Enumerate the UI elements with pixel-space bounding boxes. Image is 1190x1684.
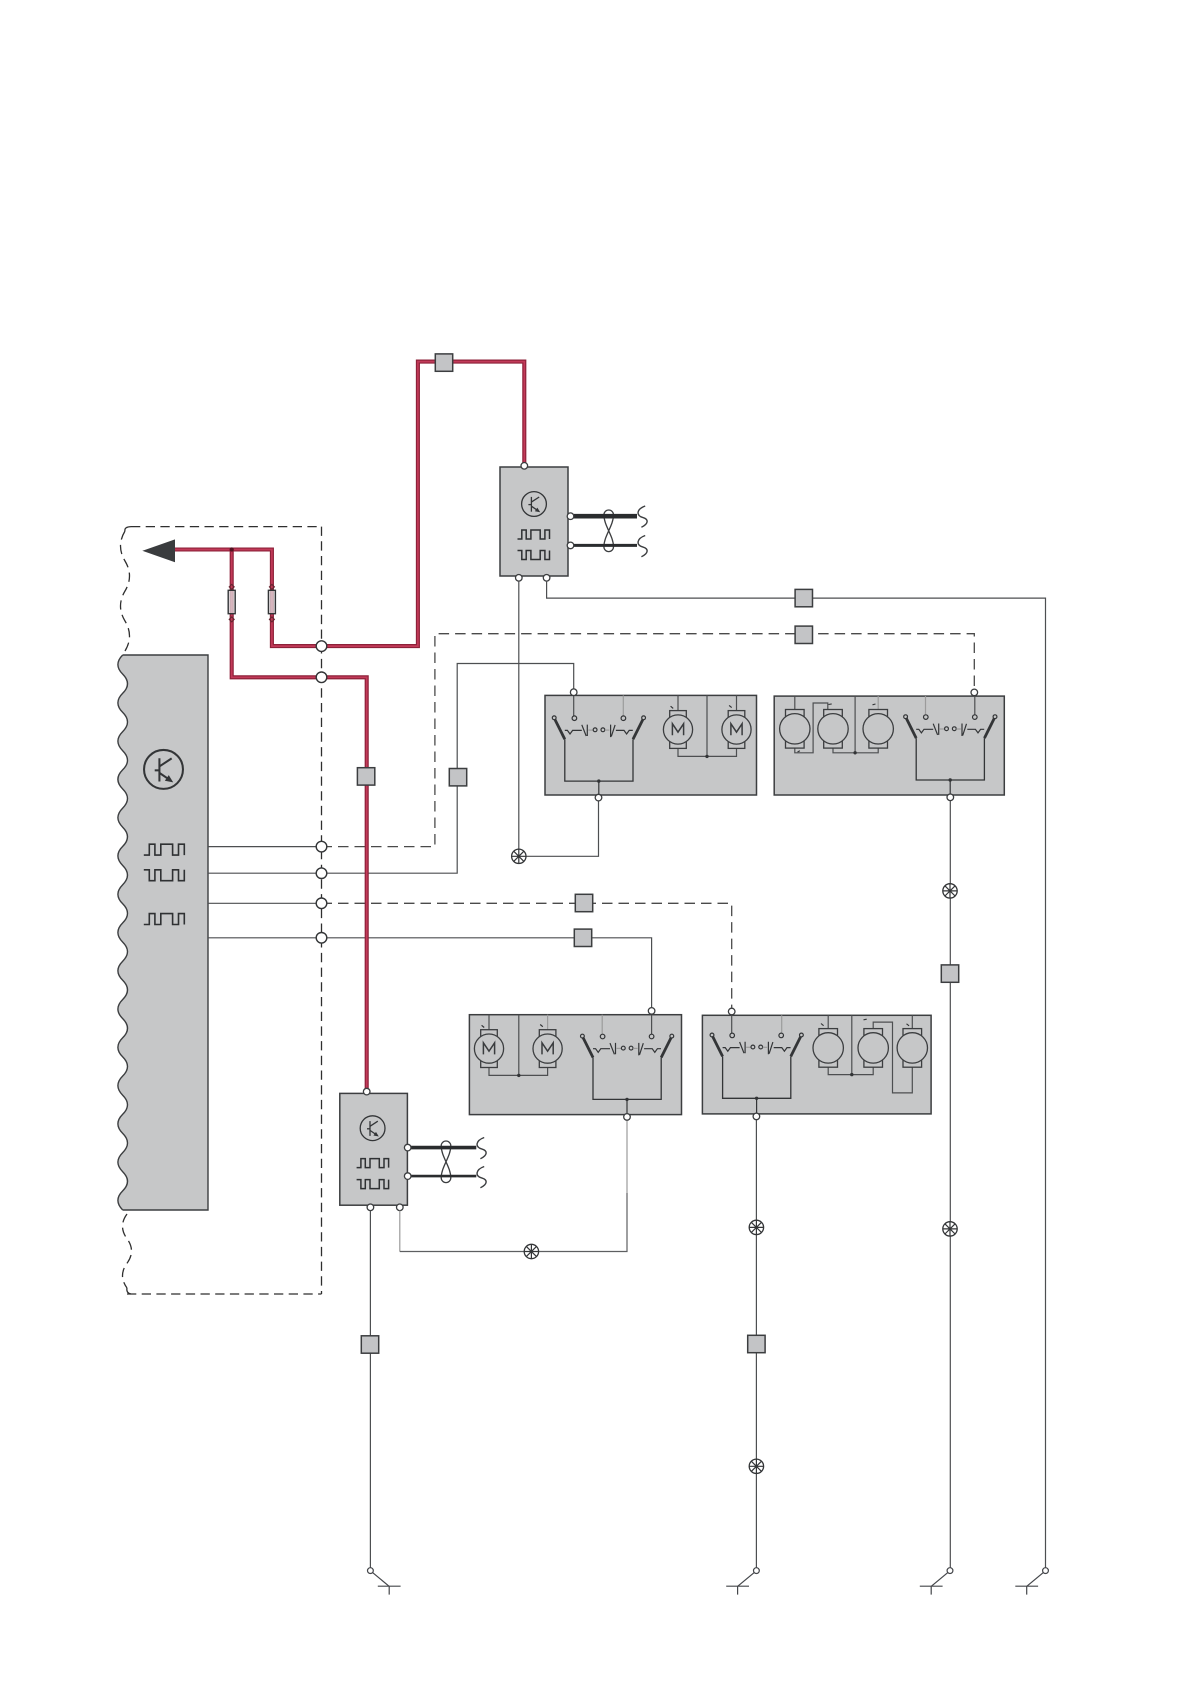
wire ECU pin3 to node N5 — [208, 902, 322, 904]
wire block D bottom pin down to ground G2 — [755, 1120, 757, 1568]
K1 bottom pin right — [543, 575, 550, 582]
door module block D body — [702, 1015, 931, 1114]
electronic module K2 body — [340, 1093, 408, 1205]
block D motor1/motor2 common rail — [828, 1015, 873, 1074]
block D motor1 feed stub — [827, 1015, 829, 1029]
node N6 signal 4 at boundary — [316, 933, 327, 944]
block C motor1 feed stub — [488, 1015, 490, 1030]
ECU wavy torn left edge — [118, 655, 128, 1210]
block C window switch — [581, 1034, 674, 1115]
K2 electronics symbol — [360, 1116, 385, 1141]
wire ECU pin1 to node N3 — [208, 846, 322, 848]
block A motor common rail — [678, 695, 737, 756]
lamp L6 on block D ground wire lower — [749, 1459, 763, 1473]
K1 right pin upper — [567, 513, 574, 520]
red wire junction — [230, 547, 234, 551]
fuse 2 — [268, 584, 275, 622]
block A motor M1 — [663, 711, 692, 749]
block A motor tick marks — [671, 705, 732, 708]
block B motor3 feed stub — [877, 696, 879, 710]
dashed harness boundary wavy left edge lower — [123, 1214, 132, 1288]
K2 twisted pair lower conductor — [411, 1175, 476, 1178]
block A bottom pin — [595, 794, 602, 801]
block B motor1-to-motor2 link — [795, 703, 828, 753]
block B motor 1 — [780, 710, 810, 749]
K1 twisted pair lower conductor — [574, 544, 637, 547]
block A motor M2 — [722, 711, 751, 749]
K1 twisted pair upper conductor — [574, 514, 637, 519]
power source arrow — [144, 540, 175, 561]
block D switch unused stub — [781, 1015, 783, 1032]
block C top pin — [648, 1008, 655, 1015]
connector C8 on block B ground wire — [941, 965, 958, 982]
lamp L1 on K1-to-A wire — [512, 849, 526, 863]
connector C4 on block A feed wire — [449, 769, 466, 786]
K1 twisted pair crossing — [604, 510, 614, 552]
block B motor1 feed stub — [794, 696, 796, 710]
block A window switch — [552, 716, 645, 797]
block D switch feed stub — [731, 1015, 733, 1033]
lamp L3 on block B ground wire — [943, 884, 957, 898]
block B motor 3 — [863, 710, 893, 749]
dashed harness boundary box bottom edge — [127, 1293, 322, 1295]
block C switch unused stub — [601, 1015, 603, 1034]
K2 top pin — [363, 1088, 370, 1095]
dashed harness boundary wavy left edge upper — [121, 531, 130, 651]
block B window switch — [904, 715, 997, 796]
block B switch feed stub — [974, 696, 976, 715]
ground G3 — [920, 1568, 953, 1595]
K1 pulse symbol 2 — [518, 551, 550, 560]
K2 twisted pair break squiggle lower — [477, 1167, 486, 1188]
K2 pulse symbol 2 — [357, 1180, 389, 1189]
dashed harness boundary box top edge — [131, 526, 322, 528]
block D top pin — [728, 1008, 735, 1015]
block C motor M2 — [533, 1030, 562, 1068]
block A motor 1 feed stub — [677, 695, 679, 711]
connector C9 on K2 ground wire — [361, 1336, 378, 1353]
dashed wire node N5 to door module D top pin — [322, 903, 732, 1007]
electronic module K1 body — [500, 467, 568, 576]
node N3 signal 1 at boundary — [316, 841, 327, 852]
wire K1 left pin down to lamp L1 and block A bottom pin — [519, 581, 599, 856]
K1 bottom pin left — [516, 575, 523, 582]
connector C2 on K1 right rail — [795, 589, 812, 606]
node N2 red branch A at boundary — [316, 672, 327, 683]
ground G4 — [1015, 1568, 1048, 1595]
ground G2 — [726, 1568, 759, 1595]
block A top pin — [570, 689, 577, 696]
block C switch feed stub — [651, 1015, 653, 1034]
block C motor common rail — [489, 1015, 548, 1076]
K1 twisted pair break squiggle lower — [638, 536, 647, 557]
K1 right pin lower — [567, 542, 574, 549]
block C motor tick marks — [482, 1025, 543, 1028]
red feed wire branch A (to module K2) outline — [232, 550, 367, 1089]
block D motor3 feed stub — [911, 1015, 913, 1029]
block A switch feed stub — [573, 695, 575, 716]
wire lamp L2 run to block C bottom pin — [400, 1193, 627, 1252]
block D motor2-to-motor3 link — [873, 1022, 912, 1093]
K2 pulse symbol 1 — [357, 1159, 389, 1168]
K2 right pin lower — [404, 1173, 411, 1180]
block A switch unused stub — [622, 695, 624, 715]
window lifter unit block C body — [469, 1015, 681, 1115]
block D window switch — [710, 1033, 803, 1114]
ECU pulse signal symbol 2 — [144, 870, 185, 881]
block D bottom pin — [753, 1113, 760, 1120]
block B switch unused stub — [925, 696, 927, 714]
wire ECU pin4 to block C top pin — [208, 938, 652, 1007]
wire K2 left pin down to ground G1 — [369, 1211, 371, 1568]
block C motor2 feed stub — [547, 1015, 549, 1030]
ECU pulse signal symbol 3 — [144, 914, 185, 925]
connector C5 on red branch A — [357, 768, 374, 785]
block A motor 2 feed stub — [736, 695, 738, 711]
fuse 1 — [228, 584, 235, 622]
lamp L2 on K2-to-C wire — [524, 1244, 538, 1258]
block D motor tick marks — [821, 1019, 909, 1026]
red feed wire branch B (to module K1) outline — [166, 362, 524, 646]
block D motor 2 — [858, 1029, 888, 1068]
K2 bottom pin right — [397, 1204, 404, 1211]
block B motor2/motor3 common rail — [833, 696, 878, 753]
wire K2 right pin down (light) — [399, 1211, 401, 1252]
K2 bottom pin left — [367, 1204, 374, 1211]
K1 top pin — [521, 463, 528, 470]
K2 twisted pair crossing — [441, 1141, 451, 1183]
block C motor M1 — [474, 1030, 503, 1068]
connector C7 on block C feed wire — [574, 929, 591, 946]
block D motor 3 — [897, 1029, 927, 1068]
K1 pulse symbol 1 — [518, 530, 550, 539]
wire K1 right pin to right rail and ground G4 — [547, 581, 1046, 1568]
block B motor 2 — [818, 710, 848, 749]
connector C10 on block D ground wire — [748, 1335, 765, 1352]
connector C6 on dashed wire to block D — [575, 894, 592, 911]
K1 electronics symbol — [522, 492, 547, 517]
ECU electronics symbol — [144, 750, 183, 789]
lamp L5 on block D ground wire — [749, 1220, 763, 1234]
lamp L4 on block B ground wire lower — [943, 1222, 957, 1236]
block B top pin — [971, 689, 978, 696]
ECU pulse signal symbol 1 — [144, 844, 185, 855]
K2 twisted pair upper conductor — [411, 1146, 476, 1150]
connector C3 on dashed wire to block B — [795, 626, 812, 643]
block C bottom pin — [624, 1114, 631, 1121]
node N1 red branch B at boundary — [316, 641, 327, 652]
connector C1 on red feed — [435, 354, 452, 371]
red feed wire branch A core — [232, 550, 367, 1089]
red feed wire branch B core — [166, 362, 524, 646]
ground G1 — [368, 1568, 401, 1595]
wire block B bottom pin down to ground G3 — [949, 801, 951, 1568]
node N4 signal 2 at boundary — [316, 868, 327, 879]
dashed wire node N3 to door module B top pin — [322, 634, 975, 847]
node N5 signal 3 at boundary — [316, 898, 327, 909]
block D motor 1 — [813, 1029, 843, 1068]
K2 twisted pair break squiggle upper — [477, 1138, 486, 1159]
window lifter unit block A body — [545, 695, 757, 795]
K2 right pin upper — [404, 1144, 411, 1151]
block B motor tick marks — [798, 704, 876, 752]
door module block B body — [774, 696, 1004, 795]
ECU control module A1 body — [118, 655, 208, 1210]
K1 twisted pair break squiggle upper — [638, 506, 647, 527]
wire ECU pin2 to window lifter block A top pin — [208, 664, 574, 874]
block B bottom pin — [947, 794, 954, 801]
dashed harness boundary box right edge — [321, 527, 323, 1294]
